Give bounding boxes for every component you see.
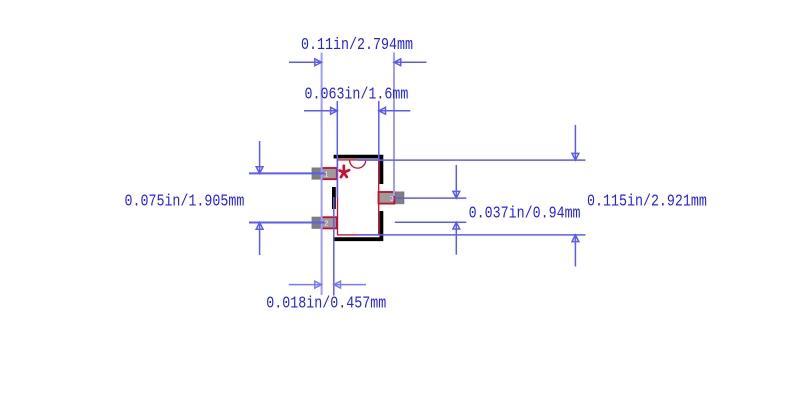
pin-1 marker asterisk (red)	[340, 166, 350, 177]
pad2 level line right segment (blue)	[395, 221, 467, 223]
dim 0.018in/0.457mm arrow line right	[334, 281, 366, 288]
dim 0.063in/1.6mm arrow line right	[379, 107, 411, 114]
silkscreen right-bottom bar (black)	[333, 211, 381, 239]
dim 0.063in/1.6mm arrow line left	[304, 107, 337, 114]
svg-text:0.063in/1.6mm: 0.063in/1.6mm	[304, 84, 408, 104]
pad 2 (copper)	[312, 217, 337, 229]
extension line left (light blue)	[321, 53, 323, 296]
pad1 center line (blue)	[249, 172, 326, 174]
body top level line right segment (blue)	[358, 159, 586, 161]
svg-text:0.115in/2.921mm: 0.115in/2.921mm	[587, 191, 707, 211]
pad 3 (copper)	[378, 192, 404, 204]
dim 0.115in/2.921mm bottom arrow	[572, 235, 579, 267]
svg-text:2: 2	[324, 220, 328, 228]
extension line right (light blue)	[393, 53, 395, 197]
dim 0.115in/2.921mm top arrow	[572, 125, 579, 160]
svg-text:3: 3	[390, 196, 394, 204]
svg-text:0.11in/2.794mm: 0.11in/2.794mm	[301, 34, 413, 54]
package body outline (red)	[338, 160, 379, 235]
silkscreen top bar (black)	[334, 157, 382, 184]
dim 0.018in/0.457mm arrow line left	[289, 281, 322, 288]
dim 0.037in/0.94mm top arrow	[453, 165, 460, 198]
svg-text:0.037in/0.94mm: 0.037in/0.94mm	[469, 203, 581, 223]
dim 0.11in/2.794mm arrow line left	[289, 59, 322, 66]
pad2 center line (blue)	[249, 222, 325, 224]
dim 0.075in/1.905mm top arrow	[256, 141, 263, 173]
extension line 0.018 right (blue)	[333, 197, 335, 296]
pin-1 orientation arc (red)	[350, 160, 366, 168]
pad 1 (copper)	[312, 168, 337, 180]
extension stub body right (blue)	[378, 101, 380, 160]
svg-text:1: 1	[324, 171, 328, 179]
body bottom level line right segment (blue)	[358, 234, 586, 236]
silkscreen left bar (black)	[332, 187, 336, 209]
extension stub body left (blue)	[336, 101, 338, 197]
pad3 center line (blue)	[391, 197, 466, 199]
dim 0.037in/0.94mm bottom arrow	[453, 222, 460, 254]
svg-text:0.018in/0.457mm: 0.018in/0.457mm	[266, 293, 386, 313]
dim 0.11in/2.794mm arrow line right	[394, 59, 427, 66]
dim 0.075in/1.905mm bottom arrow	[256, 223, 263, 256]
svg-text:0.075in/1.905mm: 0.075in/1.905mm	[124, 191, 244, 211]
